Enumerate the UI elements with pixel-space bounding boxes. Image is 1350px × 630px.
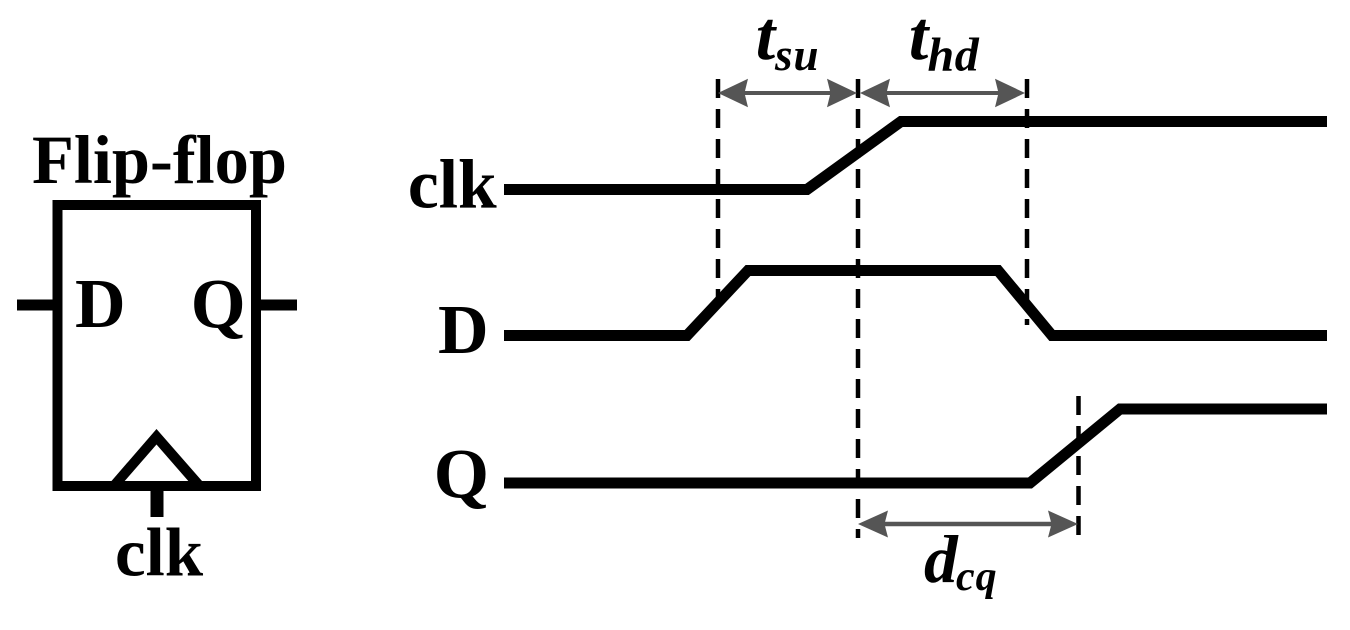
svg-text:Q: Q: [191, 265, 246, 343]
svg-text:su: su: [774, 30, 820, 80]
svg-text:D: D: [438, 292, 489, 369]
svg-text:d: d: [924, 522, 959, 597]
svg-text:Flip-flop: Flip-flop: [32, 122, 287, 198]
svg-text:D: D: [75, 266, 126, 343]
svg-text:clk: clk: [115, 515, 204, 591]
svg-text:clk: clk: [408, 147, 497, 224]
svg-text:hd: hd: [928, 29, 980, 82]
svg-text:cq: cq: [956, 554, 998, 600]
svg-text:Q: Q: [434, 436, 489, 514]
